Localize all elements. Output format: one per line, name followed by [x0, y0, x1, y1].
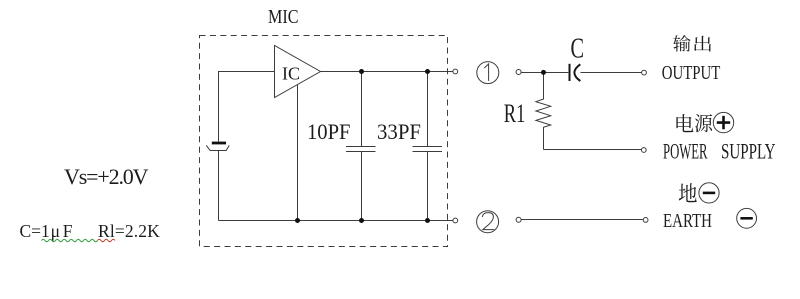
svg-text:SUPPLY: SUPPLY: [721, 138, 776, 163]
terminal pin1 open circle: [453, 69, 458, 74]
junction dot: IC bottom rail: [295, 218, 300, 223]
svg-text:10PF: 10PF: [307, 119, 351, 144]
wire: capsule to bottom rail: [218, 151, 220, 221]
wire: top rail from IC output: [320, 71, 453, 73]
svg-text:MIC: MIC: [268, 7, 299, 28]
CJK 输: [673, 35, 690, 52]
svg-text:IC: IC: [282, 64, 300, 84]
svg-text:Vs=+2.0V: Vs=+2.0V: [64, 164, 149, 189]
electret capsule element: [206, 143, 229, 151]
earth polarity circle minus (after EARTH): [737, 208, 757, 228]
wire: R1 to power supply terminal: [544, 149, 642, 151]
terminal: earth line left open circle: [516, 217, 521, 222]
node circle 1: [477, 62, 499, 84]
terminal: output line left open circle: [516, 70, 521, 75]
wire: IC bottom to bottom rail: [297, 85, 299, 221]
junction dot: C1 bottom rail: [359, 218, 364, 223]
svg-text:R1: R1: [504, 98, 526, 128]
capacitor C1 10PF: [346, 72, 376, 221]
capacitor C2 33PF: [413, 72, 443, 221]
CJK 源: [695, 114, 712, 132]
svg-text:EARTH: EARTH: [663, 210, 712, 232]
svg-text:C: C: [571, 34, 585, 65]
earth polarity circle minus (after 地): [699, 183, 719, 203]
wire: capacitor C to output terminal: [581, 72, 642, 74]
svg-text:POWER: POWER: [663, 138, 708, 163]
power supply polarity circle plus: [713, 112, 733, 132]
enclosure dashed box MIC module: [200, 36, 448, 247]
terminal: earth right open circle: [643, 218, 648, 223]
svg-text:33PF: 33PF: [377, 119, 421, 144]
terminal: output right open circle: [642, 70, 647, 75]
CJK 电: [676, 114, 693, 132]
svg-text:Rl=2.2K: Rl=2.2K: [98, 221, 160, 241]
junction dot: C2 bottom rail: [425, 218, 430, 223]
spellcheck squiggle green: [42, 239, 98, 242]
wire: bottom rail: [219, 220, 453, 222]
junction dot: C2 top rail: [425, 69, 430, 74]
wire: earth line: [521, 219, 643, 221]
svg-text:OUTPUT: OUTPUT: [662, 62, 721, 84]
CJK 出: [694, 36, 711, 52]
minus sign after EARTH: [740, 217, 752, 220]
resistor R1 zigzag: [536, 75, 551, 150]
wire: node1 to capacitor C: [521, 72, 568, 74]
CJK 地: [679, 183, 697, 202]
digit 2 of node 2: [482, 213, 494, 230]
minus sign after 地: [703, 192, 715, 195]
digit 1 of node 1: [484, 64, 488, 81]
capacitor C series plates: [570, 64, 581, 81]
svg-text:C=1μF: C=1μF: [20, 221, 73, 241]
op-amp U1 triangle: [275, 46, 321, 98]
wire: capsule to IC input: [219, 72, 275, 142]
plus sign in power polarity: [717, 116, 730, 129]
terminal pin2 open circle: [453, 218, 458, 223]
node circle 2: [477, 211, 499, 233]
junction dot: C1 top rail: [359, 69, 364, 74]
junction dot: node1 to R1/C: [541, 70, 546, 75]
terminal: power supply right open circle: [641, 148, 646, 153]
spellcheck squiggle red: [98, 239, 116, 242]
